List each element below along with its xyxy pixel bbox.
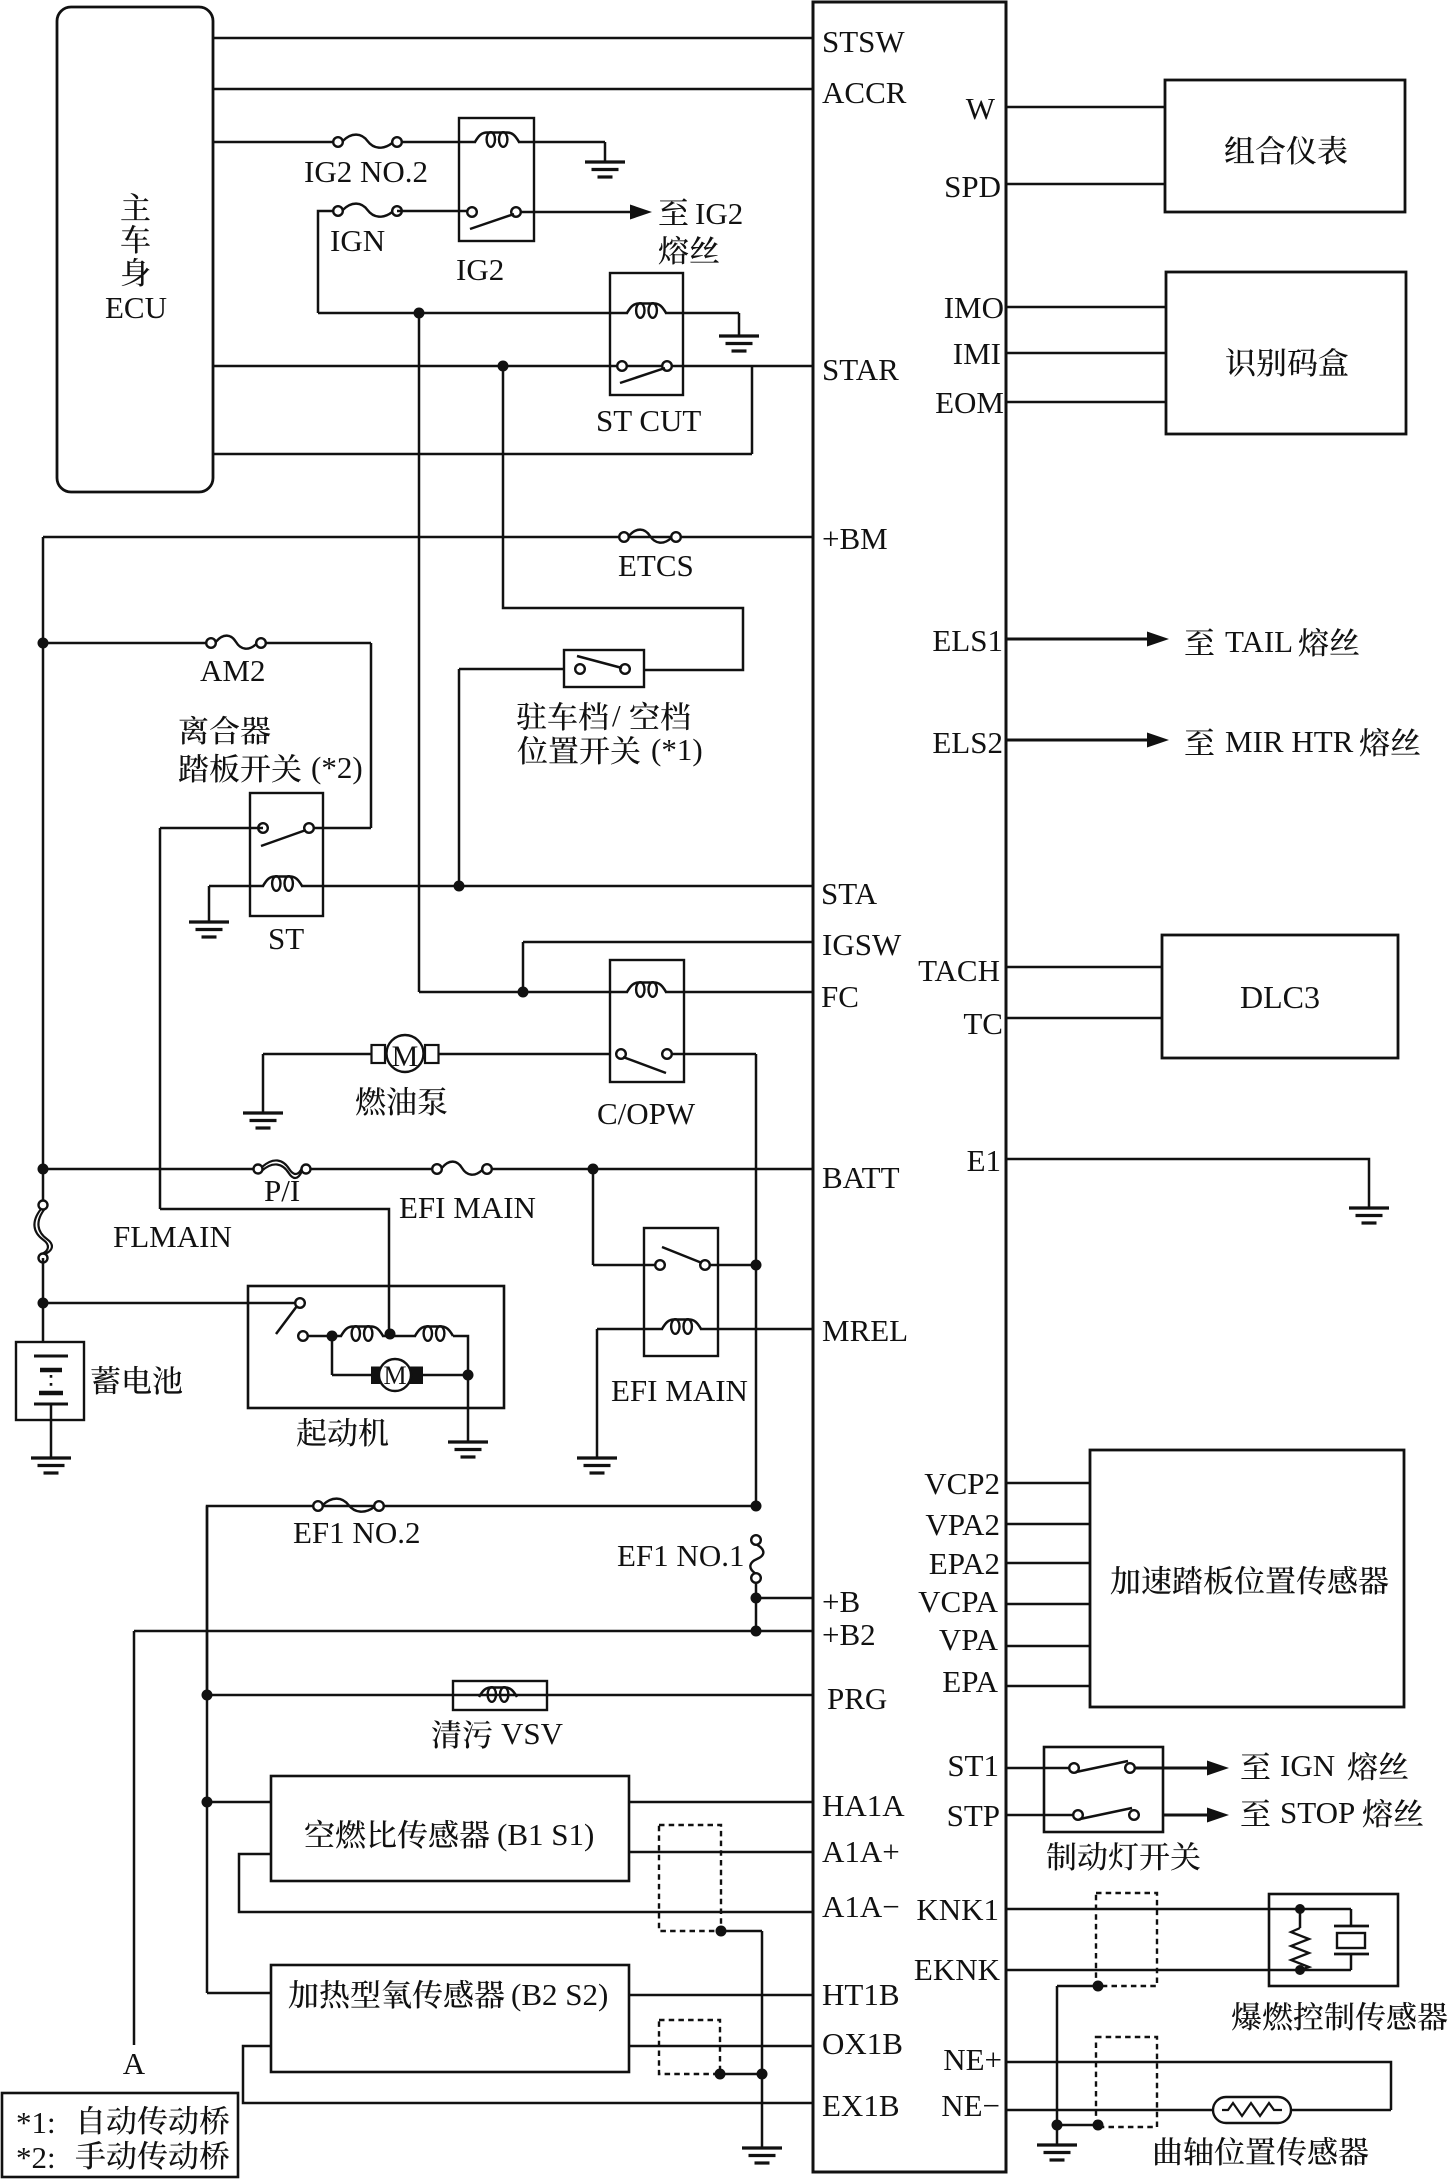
oxygen sensor box	[271, 1965, 629, 2072]
svg-text:(B2 S2): (B2 S2)	[511, 1977, 608, 2012]
relay EFI MAIN coil	[662, 1320, 701, 1330]
svg-text:DLC3: DLC3	[1240, 979, 1320, 1015]
wire shield NE drain	[1057, 2124, 1098, 2127]
svg-text:IMI: IMI	[953, 336, 1001, 371]
wire EFI->starter coil	[160, 1209, 389, 1334]
wire C/OPW sw right	[672, 1053, 756, 1056]
wire VPA2	[1006, 1523, 1090, 1526]
svg-text:P/I: P/I	[264, 1173, 300, 1208]
ground E1	[1349, 1206, 1389, 1209]
ground ST CUT coil	[719, 334, 759, 337]
fuse ETCS	[629, 530, 671, 543]
junction EF1NO1 top	[751, 1501, 762, 1512]
wire starter sw to coil junction	[308, 1335, 342, 1338]
svg-text:ETCS: ETCS	[618, 548, 694, 583]
svg-text:EPA2: EPA2	[929, 1546, 1000, 1581]
wire TACH	[1006, 966, 1162, 969]
wire x43 vertical	[42, 537, 45, 1205]
wire STAR	[213, 365, 813, 368]
shield dashed box B2	[659, 2020, 720, 2074]
wire EKNK	[1006, 1969, 1269, 1972]
svg-text:IGN: IGN	[330, 223, 385, 258]
wire shield B2 drain	[720, 2073, 762, 2076]
label 空燃比传感器 (B1 S1)	[305, 1820, 334, 1847]
svg-text:EFI MAIN: EFI MAIN	[611, 1373, 748, 1408]
shield dashed box B1	[659, 1825, 721, 1931]
label 组合仪表	[1225, 136, 1254, 163]
wire TC	[1006, 1017, 1162, 1020]
battery plates	[34, 1355, 68, 1358]
svg-text:ELS2: ELS2	[932, 725, 1003, 760]
label 踏板开关 (*2)	[179, 754, 208, 782]
wire NE+	[1006, 2062, 1391, 2110]
wire EX1B	[243, 2046, 813, 2103]
shield drain dot B1	[716, 1926, 727, 1937]
wire ST switch right	[314, 827, 371, 830]
svg-text:NE+: NE+	[943, 2042, 1002, 2077]
svg-text:KNK1: KNK1	[916, 1892, 999, 1927]
ground fuel pump	[243, 1111, 283, 1114]
brake switch ST1	[1069, 1763, 1079, 1773]
wire EPA2	[1006, 1562, 1090, 1565]
svg-text:FC: FC	[821, 979, 859, 1014]
wire A1A+	[629, 1851, 813, 1854]
svg-text:EF1 NO.1: EF1 NO.1	[617, 1538, 744, 1573]
svg-text:AM2: AM2	[200, 653, 265, 688]
wire ELS2 arrow	[1006, 738, 1151, 741]
wire ACCR	[213, 88, 813, 91]
wire KNK1	[1006, 1908, 1269, 1911]
label 蓄电池	[91, 1366, 119, 1394]
brake light switch box	[1044, 1747, 1163, 1832]
svg-text:TACH: TACH	[918, 953, 1000, 988]
purge VSV coil	[479, 1688, 517, 1698]
svg-text:ECU: ECU	[105, 290, 167, 325]
wire coil line y313	[318, 312, 628, 315]
wire starter to ground	[467, 1375, 470, 1442]
svg-text:(B1 S1): (B1 S1)	[497, 1817, 594, 1852]
svg-text:A1A−: A1A−	[822, 1889, 900, 1924]
junction NE drain	[1052, 2120, 1063, 2131]
wire HT1B	[629, 1994, 813, 1997]
junction starter motor right	[463, 1370, 474, 1381]
shield KNK drain dot	[1093, 1981, 1104, 1992]
wire ST1	[1006, 1767, 1074, 1770]
label 离合器	[179, 716, 207, 745]
svg-text:HA1A: HA1A	[822, 1788, 905, 1823]
ground battery	[31, 1456, 71, 1459]
svg-text:ST1: ST1	[947, 1748, 999, 1783]
svg-text:EX1B: EX1B	[822, 2088, 900, 2123]
svg-text:BATT: BATT	[822, 1160, 900, 1195]
junction STAR/503	[498, 361, 509, 372]
label 清污 VSV	[432, 1720, 461, 1748]
svg-text:TC: TC	[963, 1006, 1003, 1041]
ground sensors shield	[742, 2146, 782, 2149]
wire ST CUT coil to ground	[665, 312, 739, 315]
svg-text:ELS1: ELS1	[932, 623, 1003, 658]
relay EFI MAIN box	[644, 1228, 718, 1356]
wire VPA	[1006, 1645, 1090, 1648]
purge VSV box	[453, 1681, 547, 1710]
fuse EFI MAIN	[442, 1162, 482, 1175]
relay C/OPW box	[610, 960, 684, 1082]
fuse EF1 NO.2	[323, 1499, 374, 1512]
wire +B	[755, 1583, 758, 1598]
svg-text:/: /	[612, 698, 621, 733]
starter coil 2	[415, 1327, 453, 1337]
wire ST coil left to ground	[209, 885, 264, 888]
wire IG2 switch out	[521, 211, 632, 214]
junction shield drain	[757, 2069, 768, 2080]
junction PRG	[202, 1690, 213, 1701]
svg-text:+BM: +BM	[822, 521, 888, 556]
junction +B2	[751, 1626, 762, 1637]
wire STSW	[213, 37, 813, 40]
wire IGN corner	[318, 211, 338, 313]
fusible link P/I	[262, 1160, 302, 1174]
svg-text:EFI MAIN: EFI MAIN	[399, 1190, 536, 1225]
relay ST box	[250, 793, 323, 916]
svg-text:*2:: *2:	[16, 2140, 56, 2175]
label 加速踏板位置传感器	[1111, 1566, 1140, 1594]
shield dashed box KNK	[1096, 1893, 1157, 1986]
svg-text:STA: STA	[821, 876, 878, 911]
wire IGSW	[523, 941, 813, 944]
wire SPD	[1006, 183, 1165, 186]
wire +BM	[43, 536, 813, 539]
svg-text:STOP: STOP	[1280, 1795, 1355, 1830]
svg-text:C/OPW: C/OPW	[597, 1096, 696, 1131]
relay ST CUT box	[610, 273, 683, 395]
label 曲轴位置传感器	[1155, 2137, 1181, 2165]
label 驻车档/空档	[517, 702, 546, 730]
label 至 IG2	[659, 198, 688, 225]
arrow to IG2 fuse	[630, 210, 634, 213]
wire main ECU 5th	[213, 453, 752, 456]
junction BATT/593	[588, 1164, 599, 1175]
wire between starter coils	[382, 1335, 416, 1338]
fuse IGN	[343, 204, 392, 217]
wire MREL	[700, 1328, 813, 1331]
junction starter coil mid	[385, 1329, 396, 1340]
ground starter	[448, 1440, 488, 1443]
label 燃油泵	[356, 1087, 385, 1116]
fuse EF1 NO.1	[750, 1545, 763, 1573]
svg-text:E1: E1	[967, 1143, 1001, 1178]
junction +B	[751, 1593, 762, 1604]
wire A1A-	[239, 1854, 813, 1912]
wire ELS1 arrow	[1006, 637, 1151, 640]
wire EF1 NO.2	[318, 1505, 756, 1508]
label 爆燃控制传感器	[1232, 2002, 1261, 2030]
svg-text:MREL: MREL	[822, 1313, 908, 1348]
svg-text:VSV: VSV	[501, 1716, 564, 1751]
svg-text:STSW: STSW	[822, 24, 905, 59]
main body ECU label 主车身	[121, 193, 150, 220]
wire PRG	[206, 1506, 209, 1993]
wire shield KNK drain	[1057, 1985, 1098, 1988]
svg-text:M: M	[392, 1040, 419, 1073]
svg-text:+B: +B	[822, 1584, 860, 1619]
wire A feed	[133, 1631, 136, 2045]
svg-text:FLMAIN: FLMAIN	[113, 1219, 232, 1254]
pedal sensor box	[1090, 1450, 1404, 1707]
ground IG2 coil	[585, 160, 625, 163]
wire pump left to ground	[263, 1053, 372, 1056]
svg-text:IG2: IG2	[456, 252, 504, 287]
starter box	[248, 1286, 504, 1408]
DLC3 box	[1162, 935, 1398, 1058]
svg-text:EF1 NO.2: EF1 NO.2	[293, 1515, 420, 1550]
shield NE drain dot	[1093, 2120, 1104, 2131]
svg-text:(*2): (*2)	[311, 750, 363, 785]
relay ST CUT coil	[627, 304, 666, 314]
svg-text:STAR: STAR	[822, 352, 899, 387]
label 制动灯开关	[1047, 1842, 1076, 1870]
relay C/OPW coil	[627, 983, 666, 993]
wire AM2	[43, 642, 211, 645]
wire BATT	[43, 1168, 258, 1171]
svg-text:IGN: IGN	[1280, 1748, 1335, 1783]
wire 756 down	[755, 1265, 758, 1506]
shield dashed box NE	[1096, 2037, 1157, 2127]
label 起动机	[297, 1418, 326, 1447]
wire IG2 coil to ground	[518, 141, 605, 144]
knock sensor box	[1269, 1894, 1398, 1986]
note box	[2, 2093, 238, 2177]
svg-text:W: W	[966, 91, 996, 126]
A/F sensor box	[271, 1776, 629, 1881]
wire EOM	[1006, 401, 1166, 404]
svg-text:ST CUT: ST CUT	[596, 403, 701, 438]
svg-text:EOM: EOM	[935, 385, 1004, 420]
park/neutral switch box	[564, 650, 644, 687]
knock sensor internals	[1269, 1908, 1300, 1911]
relay ST CUT switch	[617, 361, 627, 371]
engine ECU box	[813, 2, 1006, 2172]
junction starter coil left	[327, 1331, 338, 1342]
wire STA	[301, 885, 813, 888]
wire starter motor line	[331, 1336, 334, 1375]
wire IMO	[1006, 306, 1166, 309]
svg-text:IGSW: IGSW	[822, 927, 902, 962]
shield drain dot B2	[715, 2069, 726, 2080]
svg-text:IG2: IG2	[695, 196, 743, 231]
svg-text:IG2 NO.2: IG2 NO.2	[304, 154, 428, 189]
label 至 IGN 熔丝	[1241, 1752, 1270, 1779]
wire VCP2	[1006, 1482, 1090, 1485]
brake switch STP	[1073, 1810, 1083, 1820]
wire IMI	[1006, 352, 1166, 355]
svg-text:VCPA: VCPA	[918, 1584, 998, 1619]
wire +B2	[755, 1598, 758, 1631]
relay IG2 box	[459, 118, 534, 241]
svg-text:ST: ST	[268, 921, 304, 956]
ground ST coil	[189, 920, 229, 923]
relay IG2 switch	[467, 207, 477, 217]
wire E1	[1006, 1159, 1369, 1208]
label 加热型氧传感器 (B2 S2)	[289, 1980, 318, 2008]
wire ST switch left	[160, 827, 263, 830]
wire FC	[419, 991, 628, 994]
wire starter coil right	[453, 1336, 468, 1375]
svg-text:MIR HTR: MIR HTR	[1225, 724, 1354, 759]
svg-text:SPD: SPD	[944, 169, 1001, 204]
svg-text:PRG: PRG	[827, 1681, 887, 1716]
fuel pump motor	[387, 1035, 424, 1072]
wire OX1B	[629, 2045, 813, 2048]
relay ST coil	[263, 877, 302, 887]
wire battery top	[42, 1258, 45, 1342]
svg-text:M: M	[383, 1361, 406, 1390]
wire vertical 503 to park sw	[503, 366, 743, 670]
combination meter box	[1165, 80, 1405, 212]
wire HT1B stub	[207, 1992, 271, 1995]
svg-text:*1:: *1:	[16, 2105, 56, 2140]
svg-text:A: A	[123, 2046, 146, 2081]
label 识别码盒	[1226, 348, 1254, 376]
wire ST1 arrow	[1134, 1766, 1211, 1769]
wire STAR riser	[751, 366, 754, 454]
junction STA/459	[454, 881, 465, 892]
ground EFI MAIN coil	[577, 1456, 617, 1459]
junction FC/IGSW	[518, 987, 529, 998]
wire to starter switch	[43, 1302, 296, 1305]
junction starter switch wire	[38, 1298, 49, 1309]
wire park sw left	[459, 668, 564, 671]
svg-text:EPA: EPA	[942, 1664, 998, 1699]
fuse IG2 NO.2	[343, 135, 392, 148]
svg-text:IMO: IMO	[944, 290, 1004, 325]
wire STP	[1006, 1814, 1078, 1817]
wire W	[1006, 106, 1165, 109]
ID code box	[1166, 272, 1406, 434]
svg-text:STP: STP	[947, 1798, 1000, 1833]
wire STP arrow	[1163, 1813, 1211, 1816]
svg-text:NE−: NE−	[941, 2088, 1000, 2123]
label 至 STOP 熔丝	[1241, 1799, 1270, 1826]
battery box	[16, 1342, 84, 1420]
fusible link FLMAIN	[34, 1209, 48, 1254]
label 熔丝(IG2)	[659, 236, 688, 265]
wire VCPA	[1006, 1603, 1090, 1606]
wire vertical 419	[418, 313, 421, 992]
svg-text:(*1): (*1)	[651, 732, 703, 767]
ground knock/crank shield	[1037, 2143, 1077, 2146]
wire C/OPW sw left to pump	[438, 1053, 610, 1056]
relay C/OPW switch	[616, 1049, 626, 1059]
wire battery to ground	[50, 1404, 53, 1458]
svg-text:A1A+: A1A+	[822, 1834, 900, 1869]
main body ECU box	[57, 7, 213, 492]
junction BATT/43	[38, 1164, 49, 1175]
relay EFI MAIN switch	[655, 1260, 665, 1270]
svg-text:+B2: +B2	[822, 1617, 876, 1652]
wire EFI switch out	[710, 1264, 756, 1267]
wire BATT to EFI switch	[592, 1169, 595, 1265]
starter coil 1	[341, 1327, 383, 1337]
wire IGN fuse to IG2 switch	[397, 210, 472, 213]
svg-text:TAIL: TAIL	[1225, 624, 1293, 659]
svg-text:OX1B: OX1B	[822, 2026, 903, 2061]
starter motor	[371, 1367, 385, 1385]
label 位置开关 (*1)	[518, 736, 547, 765]
starter switch	[295, 1298, 305, 1308]
crank sensor pickup	[1213, 2097, 1291, 2123]
junction 313/419	[414, 308, 425, 319]
wire HA1A stub	[207, 1801, 271, 1804]
wire shield B1 drain	[721, 1930, 762, 1933]
junction HA1A	[202, 1797, 213, 1808]
svg-text:VPA: VPA	[939, 1622, 999, 1657]
label 至 TAIL 熔丝	[1185, 628, 1214, 655]
relay IG2 coil	[475, 133, 519, 143]
wire EFI coil left to ground	[597, 1328, 663, 1331]
svg-text:EKNK: EKNK	[914, 1952, 1001, 1987]
svg-text:VPA2: VPA2	[925, 1507, 1000, 1542]
fuse AM2	[216, 636, 256, 649]
wire NE-	[1006, 2109, 1213, 2112]
svg-text:VCP2: VCP2	[924, 1466, 1000, 1501]
label 至 MIR HTR 熔丝	[1185, 728, 1214, 755]
relay ST switch	[258, 823, 268, 833]
junction AM2	[38, 638, 49, 649]
park/neutral switch	[575, 664, 585, 674]
wire HA1A	[629, 1801, 813, 1804]
svg-text:HT1B: HT1B	[822, 1977, 900, 2012]
svg-text:ACCR: ACCR	[822, 75, 907, 110]
wire EPA	[1006, 1685, 1090, 1688]
junction EFI/756	[751, 1260, 762, 1271]
wire to IG2 NO.2 fuse	[213, 141, 338, 144]
